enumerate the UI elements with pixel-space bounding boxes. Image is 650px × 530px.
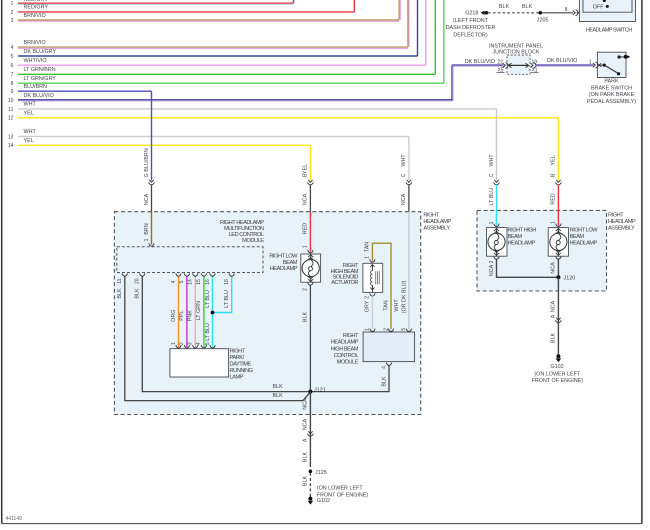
svg-text:22: 22 (497, 59, 503, 65)
svg-text:5: 5 (11, 54, 14, 60)
wire row 4 riser (407, 0, 409, 47)
svg-text:2: 2 (365, 296, 371, 299)
svg-text:5: 5 (179, 280, 185, 283)
pin cup running lamp pin 4 (201, 345, 206, 348)
svg-text:8: 8 (11, 81, 14, 87)
park brake switch hinge dot (603, 64, 606, 67)
svg-text:HEADLAMP: HEADLAMP (331, 340, 359, 346)
splice LT BLU junction (211, 311, 215, 315)
wire row 3 riser (398, 0, 400, 20)
svg-text:(ON LOWER LEFT: (ON LOWER LEFT (534, 371, 581, 377)
svg-text:7: 7 (11, 72, 14, 78)
LED control module box (117, 247, 263, 273)
svg-text:DK BLU/VIO: DK BLU/VIO (465, 59, 495, 65)
svg-text:RIGHT: RIGHT (608, 212, 624, 218)
right high beam headlamp box (487, 228, 508, 257)
svg-text:RED: RED (551, 193, 557, 204)
svg-text:WHT: WHT (24, 129, 37, 135)
splice J205 (539, 11, 543, 15)
connector C (row11) (494, 180, 498, 182)
wire row 11 horizontal (18, 108, 497, 110)
wire J120 down to ground (557, 277, 559, 355)
svg-text:ORG: ORG (171, 310, 177, 322)
svg-text:NCA: NCA (303, 418, 309, 430)
wire row 8 horizontal (18, 82, 444, 84)
wire BLK pin 20 (142, 276, 310, 391)
svg-text:WHT: WHT (394, 299, 400, 312)
wire row 4 horizontal (18, 46, 408, 48)
wire row 4 riser violet stripe (408, 0, 410, 47)
svg-text:JUNCTION BLOCK: JUNCTION BLOCK (492, 50, 539, 56)
wire DK BLU/VIO riser to junction block (451, 65, 453, 100)
svg-text:YEL: YEL (24, 111, 34, 117)
wire row 7 horizontal (18, 73, 435, 75)
svg-text:BLK: BLK (303, 452, 309, 463)
ground G218 wire (dashed BLK) (488, 12, 540, 14)
pin cup running lamp pin 3 (193, 345, 198, 348)
svg-text:MODULE: MODULE (242, 238, 264, 244)
svg-text:WHT: WHT (401, 154, 407, 167)
svg-text:B: B (551, 173, 557, 177)
svg-text:6: 6 (11, 63, 14, 69)
svg-text:WHT/VIO: WHT/VIO (24, 58, 47, 64)
svg-text:HIGH BEAM: HIGH BEAM (331, 346, 359, 352)
low beam headlamp symbol (main) (310, 254, 312, 260)
svg-text:FRONT OF ENGINE): FRONT OF ENGINE) (532, 378, 584, 384)
svg-text:C: C (489, 173, 495, 177)
park brake switch edge dot (624, 55, 628, 59)
wire row 1 riser (292, 0, 294, 3)
connector C (row13) (407, 180, 411, 182)
wire row 6 riser (425, 0, 427, 65)
svg-text:BLU/BRN: BLU/BRN (24, 84, 47, 90)
svg-text:PARK/: PARK/ (230, 355, 245, 361)
svg-text:10: 10 (8, 98, 14, 104)
connector pin 1 park brake (593, 63, 596, 67)
wire row 6 horizontal (18, 64, 426, 66)
wire BLK low beam to J121 (309, 285, 311, 391)
svg-text:LT GRN/BRN: LT GRN/BRN (24, 67, 56, 73)
svg-text:J205: J205 (537, 18, 549, 24)
svg-text:1: 1 (11, 1, 14, 7)
pin cup module pin 14 (193, 273, 198, 276)
svg-text:NCA: NCA (303, 398, 309, 410)
svg-text:HEADLAMP: HEADLAMP (508, 241, 536, 247)
svg-text:RIGHT LOW: RIGHT LOW (269, 254, 298, 260)
svg-text:(ON PARK BRAKE: (ON PARK BRAKE (589, 92, 635, 98)
svg-text:J125: J125 (315, 470, 327, 476)
svg-text:A: A (551, 314, 557, 318)
svg-text:LT GRN/GRY: LT GRN/GRY (24, 76, 57, 82)
connector pin 22 (503, 63, 506, 67)
wire row 3 riser violet stripe (399, 0, 401, 20)
svg-text:LT BLU: LT BLU (205, 290, 211, 308)
right low beam headlamp box (lamp assembly) (548, 228, 568, 257)
wire DK BLU/VIO to junction block (452, 64, 504, 66)
park brake switch box (597, 52, 626, 77)
right headlamp assembly box (main) (114, 212, 420, 415)
splice J121 (308, 390, 312, 394)
svg-text:HEADLAMP: HEADLAMP (423, 219, 451, 225)
svg-text:GRY: GRY (365, 300, 371, 312)
pin cup high beam headlamp top (494, 224, 499, 227)
svg-text:G218: G218 (465, 10, 478, 16)
svg-text:MODULE: MODULE (337, 360, 359, 366)
svg-text:HEADLAMP: HEADLAMP (270, 266, 298, 272)
svg-text:YEL: YEL (24, 138, 34, 144)
svg-text:BEAM: BEAM (283, 260, 298, 266)
wire ORG module pin 4 (178, 276, 180, 347)
svg-text:LT BLU: LT BLU (224, 290, 230, 308)
pin cup module pin 16 (210, 273, 215, 276)
wire low beam to J120 (557, 259, 559, 277)
wire stub into headlamp switch (577, 12, 580, 14)
svg-text:12: 12 (8, 116, 14, 122)
svg-text:DEFLECTOR): DEFLECTOR) (453, 32, 488, 38)
pin cup LED module pin 1 (149, 243, 154, 246)
park brake switch wire to edge (619, 56, 626, 58)
wire LT GRN module pin 15 (203, 276, 205, 347)
svg-text:RED/GRY: RED/GRY (24, 5, 49, 11)
connector A (center) (308, 431, 312, 433)
wire LT BLU segment (496, 185, 498, 226)
svg-text:16: 16 (205, 279, 211, 285)
wire BLK pin 11 (125, 276, 311, 400)
svg-text:LT GRN: LT GRN (196, 301, 202, 320)
svg-text:1: 1 (171, 342, 177, 345)
svg-text:2: 2 (383, 328, 389, 331)
park brake switch arm input arrow (599, 63, 602, 66)
svg-text:BRN/VIO: BRN/VIO (24, 40, 46, 46)
pin cup LED module pin 20 (140, 273, 145, 276)
svg-text:4: 4 (381, 366, 387, 369)
pin cup control module pin 4 (386, 363, 391, 366)
wire WHT drop (row11) (496, 109, 498, 181)
connector B (308, 180, 312, 182)
park brake switch lower contact dot (617, 72, 620, 75)
svg-text:PEDAL ASSEMBLY): PEDAL ASSEMBLY) (587, 99, 636, 105)
right low beam headlamp box (main assembly) (301, 254, 321, 282)
svg-text:LAMP: LAMP (230, 374, 244, 380)
wire row 1 lt blu stripe (18, 3, 293, 5)
svg-text:1: 1 (551, 221, 557, 224)
wire YEL drop (309, 145, 311, 180)
wire BLK J205 to headlamp switch (540, 12, 573, 14)
wire BLK control module pin 4 to J121 (311, 365, 389, 391)
right headlamp assembly box (lamps) (477, 210, 607, 291)
svg-text:RED: RED (303, 223, 309, 234)
pin cup solenoid pin 2 (370, 293, 375, 296)
svg-text:8: 8 (565, 7, 568, 13)
pin cup running lamp pin 2 (184, 345, 189, 348)
svg-text:PPL: PPL (179, 311, 185, 321)
svg-text:DK BLU/GRY: DK BLU/GRY (24, 49, 57, 55)
svg-text:BLK: BLK (117, 288, 123, 299)
solenoid coil symbol (371, 264, 373, 271)
wire LT BLU module pin 18 (214, 276, 232, 312)
headlamp switch inner box (583, 0, 632, 12)
svg-text:BEAM: BEAM (570, 234, 585, 240)
wire row 2 riser (353, 0, 355, 12)
svg-text:J121: J121 (314, 387, 326, 393)
svg-text:WHT: WHT (24, 102, 37, 108)
wire row 12 horizontal (18, 117, 558, 119)
wire row 10 horizontal (18, 99, 452, 101)
wire row 5 riser (417, 0, 419, 56)
wire row 1 horizontal (18, 2, 293, 4)
svg-text:G: G (144, 173, 150, 177)
svg-text:DAYTIME: DAYTIME (230, 362, 252, 368)
wire row 7 riser (434, 0, 436, 74)
page right border (641, 0, 643, 524)
svg-text:ACTUATOR: ACTUATOR (331, 280, 358, 286)
svg-text:2: 2 (303, 288, 309, 291)
svg-text:11: 11 (117, 278, 123, 283)
svg-text:NCA: NCA (551, 300, 557, 312)
svg-text:LT BLU: LT BLU (489, 188, 495, 206)
wire row 3 violet stripe (18, 20, 399, 22)
wire RED segment (lamp assembly) (557, 185, 559, 226)
svg-text:TAN: TAN (365, 242, 371, 252)
right low beam headlamp symbol (lamp assembly) (557, 228, 559, 234)
wire row 9 horizontal (18, 90, 152, 92)
park brake switch exit arrow (627, 55, 630, 58)
wire row 4 violet stripe (18, 47, 408, 49)
svg-text:(OR DK BLU): (OR DK BLU) (402, 280, 408, 313)
pin cup solenoid pin 1 (370, 259, 375, 262)
svg-text:A: A (303, 438, 309, 442)
svg-text:1: 1 (365, 256, 371, 259)
connector pin 19 (531, 63, 534, 67)
park brake switch upper contact dot (618, 55, 621, 58)
svg-text:HEADLAMP: HEADLAMP (570, 241, 598, 247)
wire NCA segment (wire B) (309, 185, 311, 212)
wire BRN segment (151, 212, 153, 245)
svg-text:RUNNING: RUNNING (230, 368, 253, 374)
svg-text:ASSEMBLY: ASSEMBLY (423, 225, 450, 231)
connector B (row12) (556, 180, 560, 182)
svg-text:BLK: BLK (499, 4, 510, 10)
right park/daytime running lamp box (170, 349, 229, 377)
svg-text:NCA: NCA (551, 262, 557, 274)
ground G102 (center) (308, 497, 312, 501)
page left border (1, 0, 3, 524)
junction block internal wire (509, 64, 529, 66)
wire NCA segment (wire C2) (408, 185, 410, 212)
svg-text:5: 5 (205, 342, 211, 345)
svg-text:J120: J120 (564, 275, 576, 281)
wire RED segment (309, 212, 311, 252)
wire row 2 horizontal (18, 11, 354, 13)
svg-text:YEL: YEL (551, 155, 557, 165)
svg-text:DK BLU/VIO: DK BLU/VIO (24, 93, 54, 99)
svg-text:NCA: NCA (144, 193, 150, 205)
wire PNK module pin 14 (194, 276, 196, 347)
svg-text:14: 14 (188, 279, 194, 285)
wire PPL module pin 5 (186, 276, 188, 347)
svg-text:HEADLAMP SWITCH: HEADLAMP SWITCH (586, 27, 632, 33)
right high beam headlamp symbol (496, 228, 498, 234)
svg-text:RED/GRY: RED/GRY (24, 0, 49, 3)
svg-text:G102: G102 (317, 498, 330, 504)
svg-text:1: 1 (303, 245, 309, 248)
pin cup low beam headlamp top (308, 250, 313, 253)
wire BLU/BRN drop (151, 91, 153, 180)
svg-text:2: 2 (11, 10, 14, 16)
svg-text:BRN/VIO: BRN/VIO (24, 13, 46, 19)
right headlamp high beam control module box (363, 332, 415, 362)
svg-text:BLK: BLK (303, 312, 309, 323)
svg-text:3: 3 (11, 18, 14, 24)
wire YEL drop (row12) (557, 118, 559, 181)
svg-text:TAN: TAN (383, 300, 389, 310)
svg-text:1: 1 (365, 328, 371, 331)
wire row 13 horizontal (18, 135, 409, 137)
junction block arrow right (526, 63, 529, 67)
wire row 14 horizontal (18, 144, 310, 146)
wire row 5 horizontal (18, 55, 418, 57)
svg-text:ASSEMBLY: ASSEMBLY (608, 225, 635, 231)
svg-text:BLK: BLK (551, 333, 557, 344)
wire GRY solenoid to module (371, 296, 373, 329)
svg-text:RIGHT: RIGHT (343, 333, 359, 339)
svg-text:RIGHT: RIGHT (423, 212, 439, 218)
svg-text:1: 1 (144, 238, 150, 241)
svg-text:1: 1 (589, 59, 592, 65)
park brake switch blade (604, 65, 618, 74)
svg-text:18: 18 (224, 279, 230, 285)
svg-text:14: 14 (8, 143, 14, 149)
svg-text:NCA: NCA (489, 264, 495, 276)
splice J125 (309, 470, 313, 474)
pin cup low beam headlamp bottom (308, 282, 313, 285)
svg-text:20: 20 (135, 278, 141, 284)
svg-text:BLK: BLK (273, 384, 284, 390)
connector G (149, 180, 153, 182)
wire row 3 horizontal (18, 19, 399, 21)
pin cup running lamp pin 5 (210, 345, 215, 348)
wire row 1 riser stripe (294, 0, 296, 3)
svg-text:PNK: PNK (188, 310, 194, 321)
connector pin 8 (573, 11, 576, 15)
svg-text:OFF: OFF (593, 4, 604, 10)
svg-text:4: 4 (196, 342, 202, 345)
svg-text:11: 11 (8, 107, 13, 113)
wire high beam headlamp to J120 (497, 259, 559, 277)
pin cup module pin 5 (184, 273, 189, 276)
svg-text:9: 9 (11, 89, 14, 95)
pin cup low beam bottom (lamp assembly) (556, 256, 561, 259)
svg-text:NCA: NCA (401, 193, 407, 205)
pin cup control module pin 1 (370, 329, 375, 332)
splice J120 (556, 275, 560, 279)
wire WHT segment to module (408, 212, 410, 330)
pin cup control module pin 2 (388, 329, 393, 332)
wire WHT drop (row13) (408, 136, 410, 180)
svg-text:HEADLAMP: HEADLAMP (608, 219, 636, 225)
headlamp switch OFF contact dot (606, 5, 609, 8)
svg-text:(ON LOWER LEFT: (ON LOWER LEFT (317, 486, 364, 492)
svg-text:13: 13 (8, 134, 14, 140)
svg-text:BEAM: BEAM (508, 234, 523, 240)
svg-text:3: 3 (188, 342, 194, 345)
junction block arrow left (508, 63, 511, 67)
svg-text:PARK: PARK (604, 78, 619, 84)
svg-text:CONTROL: CONTROL (334, 353, 359, 359)
svg-text:BRN: BRN (144, 223, 150, 234)
wire row 8 riser (443, 0, 445, 83)
headlamp switch upper contact dot (603, 0, 606, 2)
pin cup high beam headlamp bottom (494, 256, 499, 259)
svg-text:RIGHT LOW: RIGHT LOW (570, 228, 599, 234)
svg-text:BLK: BLK (135, 288, 141, 299)
pin cup running lamp pin 1 (176, 345, 181, 348)
wire J121 down (309, 392, 311, 464)
wire TAN loop (372, 243, 391, 329)
svg-text:2: 2 (489, 260, 495, 263)
svg-text:NCA: NCA (303, 193, 309, 205)
svg-text:BLK: BLK (273, 393, 284, 399)
svg-text:G102: G102 (550, 364, 563, 370)
svg-text:15: 15 (196, 279, 202, 285)
svg-text:2: 2 (179, 342, 185, 345)
svg-text:BLK: BLK (522, 4, 533, 10)
instrument panel junction block box (507, 55, 530, 74)
svg-text:BRAKE SWITCH: BRAKE SWITCH (591, 85, 632, 91)
pin cup LED module pin 11 (122, 273, 127, 276)
svg-text:LT BLU: LT BLU (205, 323, 211, 341)
right high beam solenoid actuator box (363, 263, 383, 292)
wire LT BLU module pin 16 (212, 276, 214, 347)
connector A (right) (556, 318, 560, 320)
pin cup module pin 4 (176, 273, 181, 276)
svg-text:C: C (401, 173, 407, 177)
pin cup module pin 15 (201, 273, 206, 276)
wire DK BLU/VIO to park brake switch (536, 64, 594, 66)
pin cup low beam top (lamp assembly) (556, 224, 561, 227)
svg-text:4: 4 (171, 280, 177, 283)
svg-text:DASH DEFROSTER: DASH DEFROSTER (446, 25, 496, 31)
wire NCA segment (to module) (151, 185, 153, 212)
svg-text:4: 4 (11, 45, 14, 51)
ground G102 (engine right) (556, 354, 560, 358)
svg-text:BLU/BRN: BLU/BRN (144, 148, 150, 171)
svg-text:RIGHT: RIGHT (230, 349, 246, 355)
page bottom border (2, 523, 642, 525)
svg-text:BLK: BLK (381, 376, 387, 387)
svg-text:(LEFT FRONT: (LEFT FRONT (453, 18, 489, 24)
ground G218 symbol (481, 11, 485, 15)
pin cup control module pin 5 (406, 329, 411, 332)
svg-text:DK BLU/VIO: DK BLU/VIO (547, 58, 577, 64)
svg-text:YEL: YEL (303, 164, 309, 174)
svg-text:INSTRUMENT PANEL: INSTRUMENT PANEL (489, 43, 543, 49)
svg-text:441149: 441149 (6, 516, 23, 522)
svg-text:RIGHT HIGH: RIGHT HIGH (508, 228, 537, 234)
wire J125 to ground (309, 473, 311, 497)
svg-text:BLK: BLK (303, 476, 309, 487)
headlamp switch outer box (579, 0, 635, 22)
pin cup module pin 18 (229, 273, 234, 276)
svg-text:WHT: WHT (489, 154, 495, 167)
